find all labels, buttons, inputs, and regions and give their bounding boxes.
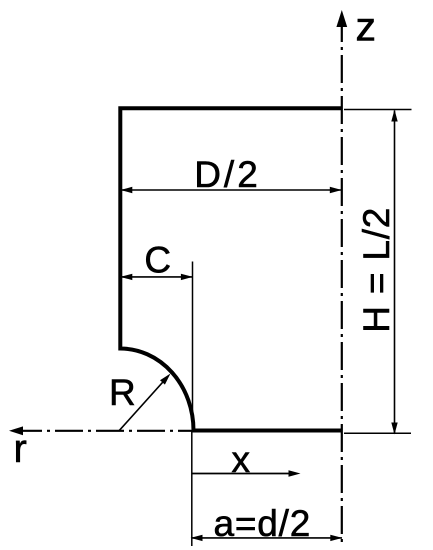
dimension D/2: right arrowhead: [330, 187, 342, 193]
svg-text:z: z: [356, 4, 377, 50]
dimension H=L/2: top arrowhead: [391, 110, 397, 122]
dimension a=d/2: right extension (z-axis continues, see axis); dimension line: [192, 537, 342, 539]
svg-text:r: r: [14, 427, 27, 471]
radius R: leader arrowhead touching arc: [160, 374, 171, 385]
r-axis centerline (dash-dot): [14, 430, 196, 432]
dimension a=d/2: left extension line: [191, 431, 193, 547]
radius R: leader line from fillet center: [119, 378, 167, 431]
z-axis arrowhead: [336, 10, 347, 27]
dimension C: dimension line: [121, 276, 192, 278]
svg-text:x: x: [231, 439, 250, 480]
dimension H=L/2: dimension line: [394, 111, 396, 435]
svg-text:C: C: [144, 240, 171, 281]
dimension C: extension line down to fillet corner: [192, 262, 194, 431]
r-axis arrowhead: [9, 426, 23, 435]
dimension H=L/2: bottom arrowhead: [391, 423, 397, 435]
svg-text:R: R: [109, 372, 136, 413]
dimension a=d/2: left arrowhead: [191, 535, 203, 541]
svg-text:a=d/2: a=d/2: [213, 503, 311, 544]
z-axis centerline (dash-dot): [341, 14, 343, 546]
dimension D/2: dimension line: [121, 189, 341, 191]
dimension H=L/2: top extension line: [344, 109, 412, 111]
dimension C: left arrowhead: [120, 274, 132, 280]
dimension C: right arrowhead: [181, 274, 193, 280]
body outline (heavy): top edge, left edge, fillet arc, bottom edge: [120, 108, 342, 430]
dimension a=d/2: right arrowhead: [330, 535, 342, 541]
dimension H=L/2: bottom extension line: [344, 432, 411, 434]
x direction arrow: arrowhead: [289, 470, 301, 476]
dimension D/2: left arrowhead: [120, 187, 132, 193]
x direction arrow: line: [192, 473, 297, 475]
svg-text:H = L/2: H = L/2: [356, 207, 397, 333]
svg-text:D/2: D/2: [194, 154, 261, 195]
